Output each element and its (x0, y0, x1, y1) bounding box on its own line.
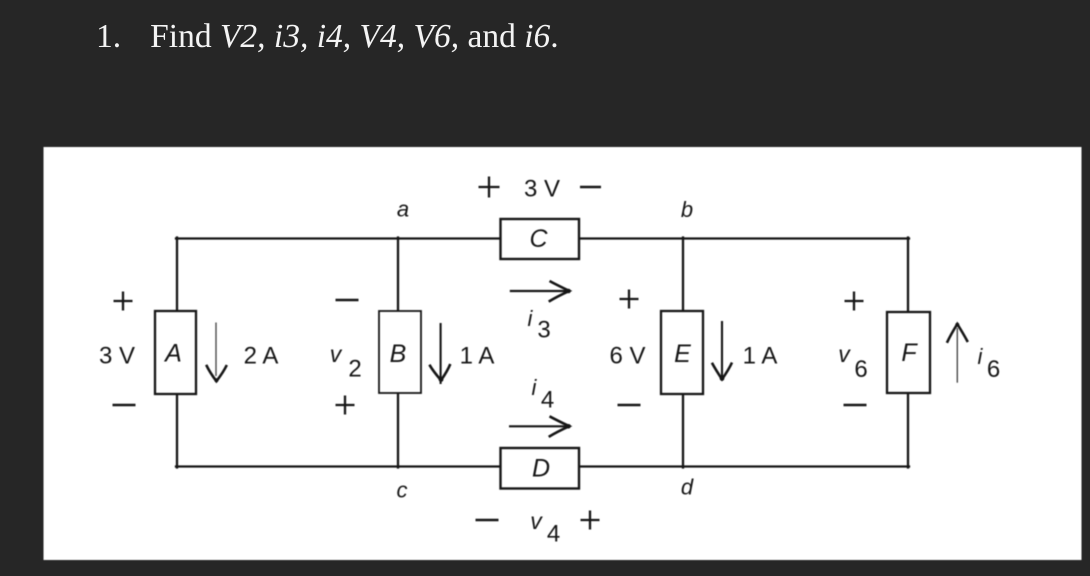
svg-text:3 V: 3 V (524, 176, 560, 203)
element A (155, 311, 196, 394)
element D (501, 448, 580, 489)
svg-text:a: a (397, 197, 409, 222)
minus sign branch B (336, 299, 359, 302)
plus sign branch B (336, 396, 355, 415)
svg-text:A: A (163, 340, 182, 368)
plus sign branch F (845, 292, 864, 311)
plus sign below D (581, 511, 600, 530)
svg-text:1 A: 1 A (743, 343, 778, 370)
svg-text:c: c (397, 478, 408, 503)
svg-text:6: 6 (987, 356, 1000, 383)
wire bottom: node c to node d rail (176, 465, 909, 467)
element E (661, 311, 703, 394)
current arrow 2 A (206, 323, 227, 383)
svg-text:F: F (901, 339, 918, 367)
svg-text:4: 4 (547, 521, 560, 548)
minus sign branch E (618, 404, 641, 407)
minus sign branch A (113, 404, 136, 407)
svg-text:B: B (390, 340, 407, 368)
plus sign above C (479, 177, 500, 198)
svg-text:C: C (529, 225, 548, 253)
white figure panel (44, 147, 1082, 560)
problem heading (96, 19, 559, 56)
wire right branch (907, 238, 909, 468)
svg-text:d: d (681, 475, 694, 500)
svg-text:2 A: 2 A (244, 343, 279, 370)
wire branch a-c (397, 238, 399, 468)
svg-text:2: 2 (348, 356, 361, 383)
element F (887, 312, 930, 393)
svg-text:6: 6 (854, 356, 867, 383)
current arrow 1 A branch B (429, 323, 450, 384)
svg-text:D: D (532, 455, 550, 483)
svg-text:v: v (330, 341, 343, 367)
current arrow i4 (509, 416, 571, 437)
minus sign above C (580, 186, 601, 189)
svg-text:1 A: 1 A (460, 343, 495, 370)
svg-text:3 V: 3 V (99, 343, 135, 370)
current arrow i6 (947, 323, 968, 383)
minus sign below D (476, 519, 499, 522)
minus sign branch F (844, 404, 867, 407)
svg-text:b: b (681, 197, 693, 222)
svg-text:6 V: 6 V (609, 343, 645, 370)
plus sign branch A (114, 292, 133, 311)
wire top: node a to node b rail (176, 237, 909, 239)
plus sign branch E (620, 290, 639, 309)
svg-text:3: 3 (537, 317, 550, 344)
current arrow 1 A branch E (712, 321, 732, 381)
svg-text:v: v (838, 341, 851, 367)
svg-text:4: 4 (541, 387, 554, 414)
wire branch b-d (682, 238, 684, 468)
current arrow i3 (510, 281, 571, 302)
wire left branch (176, 238, 178, 468)
element C (501, 219, 580, 259)
svg-text:v: v (530, 508, 543, 534)
svg-text:E: E (674, 340, 691, 368)
element B (379, 311, 421, 393)
